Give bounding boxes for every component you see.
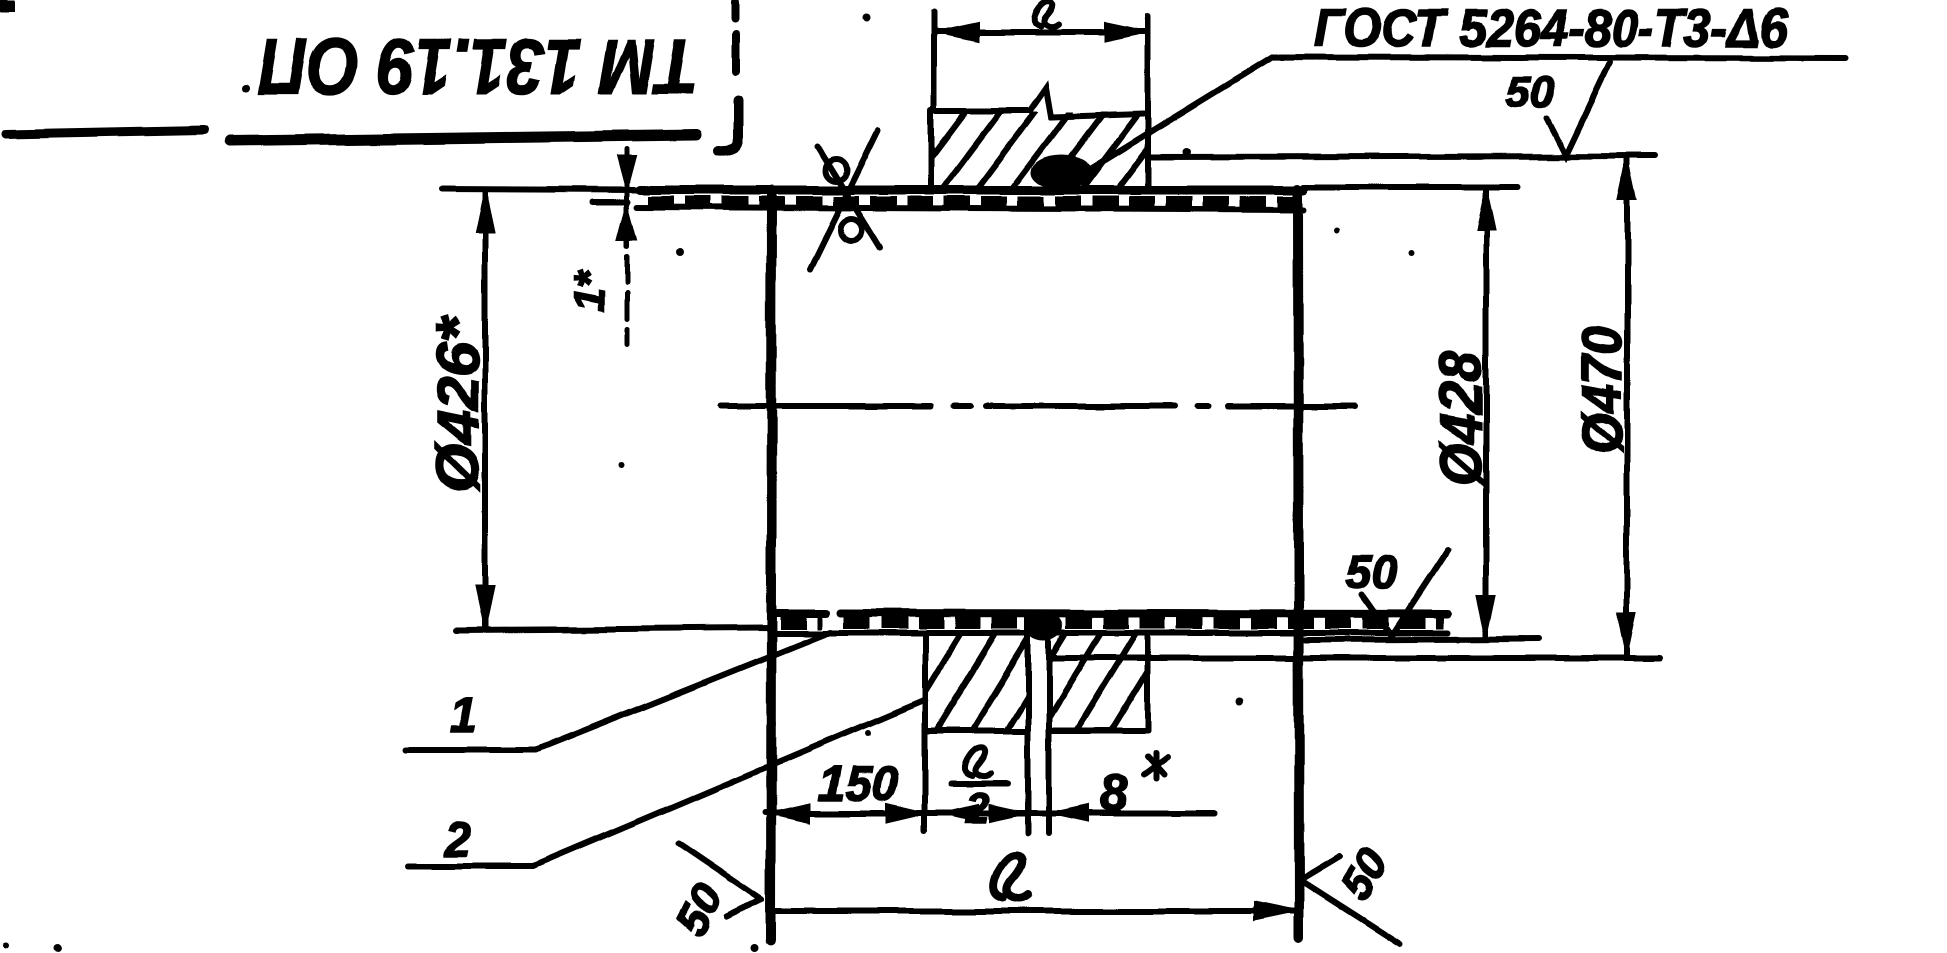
dashed frame corner [718,2,738,151]
sleeve wall top band inner line [637,207,1304,210]
label 8 star [1144,753,1168,779]
dimension phi470 line [1624,158,1630,656]
weld-flush symbol crossed circle [810,130,880,269]
border line left edge [6,130,204,134]
label L (script ell) [1034,2,1058,27]
arrow phi428 bottom [1477,596,1495,638]
label L/2 numerator [964,748,991,777]
dimension L extension line right [1145,16,1151,190]
bottom dimension line 150 L/2 8 [765,810,1214,816]
arrow at 1052 left [1052,805,1088,821]
bottom blocks hatching [900,635,1170,733]
dimension 1mm gap line [625,149,630,345]
sleeve wall top band outer line [640,186,1304,195]
arrow gap down [618,156,636,190]
svg-text:1*: 1* [565,269,614,312]
leader 2 [408,700,925,867]
title text TM 131.19 OP (printed upside down) [258,23,697,111]
dimension L extension line left [931,12,937,108]
arrow phi470 top [1618,158,1636,200]
arrow phi426 bottom [476,586,494,628]
slot extension line right [1046,617,1052,833]
svg-text:50: 50 [1506,68,1555,117]
svg-text:2: 2 [443,814,471,867]
arrow at 925 right [887,804,925,822]
wall section top block [931,88,1144,189]
arrow at 770 [770,804,810,822]
weld tail 50 bottom right [1300,856,1400,944]
sleeve wall bottom band inner line [776,630,1448,636]
L/2 extension line [922,731,928,831]
arrow L left [936,23,978,41]
casing outer top extension line right [1148,156,1655,157]
svg-text:ГОСТ 5264-80-Т3-Δ6: ГОСТ 5264-80-Т3-Δ6 [1314,0,1788,58]
weld field mark check bottom [1362,549,1448,636]
centerline [721,403,1355,409]
svg-text:Ø470: Ø470 [1570,326,1633,454]
arrow phi470 bottom [1618,614,1636,656]
weld root blob [1025,611,1063,641]
pipe right wall [1298,189,1299,937]
wall section top block hatching [905,112,1175,192]
wall section bottom right block [1049,634,1148,731]
svg-text:1: 1 [450,690,477,743]
dimension L line [936,29,1147,35]
title underline [230,135,696,141]
leader 1 [406,632,830,750]
arrow at 944 left [944,805,978,821]
phi426 bottom extension line [457,628,770,630]
arrow L right [1105,23,1147,41]
arrow phi426 top [476,190,494,232]
pipe left wall [771,190,772,940]
weld callout leader with underline [1085,57,1845,172]
arrow phi428 top [1477,188,1495,230]
weld nugget top [1032,155,1092,189]
sleeve wall bottom band hatch bricks [780,617,1444,629]
phi470 bottom extension line [1050,655,1660,661]
phi428 bottom extension line [1305,639,1540,640]
svg-text:ТМ 131.19 ОП: ТМ 131.19 ОП [258,23,697,111]
arrow ell right [1254,902,1297,920]
scan noise specks [0,0,1462,952]
tick for 1mm gap [592,199,628,205]
sleeve wall bottom band outer line [776,613,1448,614]
sleeve wall top band hatch bricks [648,196,1300,208]
casing inner top extension line right [1304,184,1517,190]
label L/2 bar [951,781,1008,787]
svg-text:50: 50 [1346,546,1398,598]
slot extension line left [1025,617,1031,833]
weld field mark check top right [1547,62,1610,155]
dimension phi428 line [1483,188,1489,638]
svg-text:Ø426*: Ø426* [426,315,491,492]
arrow gap up [618,206,636,240]
weld tail 50 bottom left [678,843,762,917]
svg-text:2: 2 [965,784,989,831]
dimension ell line [770,908,1297,914]
svg-text:8: 8 [1100,765,1128,821]
sleeve top line left segment [443,189,640,190]
arrow at 1026 right [990,805,1026,821]
label ell [994,855,1028,899]
wall section bottom left block [925,634,1026,731]
svg-text:Ø428: Ø428 [1429,351,1494,486]
svg-text:150: 150 [818,758,898,811]
dimension phi426 line [482,190,488,628]
